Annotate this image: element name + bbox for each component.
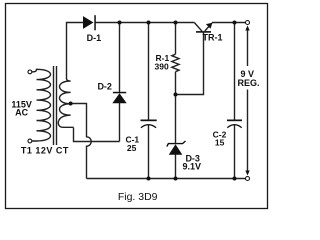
output terminal bottom: [246, 177, 250, 181]
wire top rail right (TR-1 emitter to output terminal): [212, 22, 246, 24]
transformer core: [54, 66, 57, 145]
resistor R-1 zigzag: [172, 54, 179, 71]
junction node emitter/C-2: [233, 21, 237, 25]
wire R-1 bottom to zener node: [175, 72, 177, 95]
junction node C-1/top rail: [147, 21, 151, 25]
wire top rail middle (D-1 cathode to TR-1 collector): [95, 22, 194, 24]
primary terminal top: [28, 70, 32, 74]
svg-text:T1 12V CT: T1 12V CT: [21, 145, 69, 155]
transistor TR-1 base bar: [196, 31, 211, 33]
junction node base/zener: [174, 93, 178, 97]
wire secondary bottom to D-2 anode: [74, 128, 120, 142]
zener D-3 top lead: [175, 95, 177, 144]
transistor TR-1 collector diagonal: [194, 23, 202, 32]
diode D-2 leads: [119, 23, 121, 142]
9V indicator line top: [247, 30, 249, 67]
capacitor C-2 plates: [227, 120, 242, 128]
junction node C-1/bottom rail: [147, 177, 151, 181]
junction node R-1/top rail: [174, 21, 178, 25]
diode D-1: [83, 15, 96, 30]
junction node center tap: [69, 102, 73, 106]
svg-text:REG.: REG.: [237, 78, 259, 88]
diode D-2: [113, 92, 126, 103]
svg-text:390: 390: [155, 61, 169, 71]
zener D-3 bottom lead: [175, 154, 177, 178]
9V indicator line bottom: [247, 90, 249, 171]
junction node D-2/top rail: [118, 21, 122, 25]
resistor R-1 top lead: [175, 23, 177, 55]
arrow down at bottom output terminal: [245, 171, 249, 176]
wire base node to TR-1 base: [176, 32, 204, 95]
svg-text:AC: AC: [15, 108, 28, 118]
wire top rail left (secondary top to D-1): [67, 23, 84, 80]
svg-text:D-2: D-2: [97, 82, 112, 92]
wire center tap to bottom rail (with hop): [71, 104, 92, 179]
transformer T1 secondary winding: [58, 79, 73, 128]
arrow up at top output terminal: [245, 26, 249, 31]
wire bottom rail: [87, 178, 246, 180]
capacitor C-1 plates: [141, 120, 157, 128]
svg-text:15: 15: [215, 138, 225, 148]
transformer T1 primary winding: [32, 69, 51, 141]
transistor TR-1 emitter arrowhead: [206, 23, 212, 29]
border frame: [6, 4, 268, 209]
svg-text:Fig. 3D9: Fig. 3D9: [118, 191, 158, 203]
svg-text:D-1: D-1: [87, 33, 102, 43]
svg-text:TR-1: TR-1: [203, 33, 223, 43]
capacitor C-2 leads: [234, 23, 236, 179]
transistor TR-1 emitter diagonal: [205, 23, 212, 31]
output terminal top: [246, 21, 250, 25]
zener D-3: [167, 141, 186, 155]
junction node D-3/bottom rail: [174, 177, 178, 181]
junction node C-2/bottom rail: [233, 177, 237, 181]
capacitor C-1 leads: [148, 23, 150, 179]
primary terminal bottom: [28, 139, 32, 143]
svg-text:25: 25: [127, 143, 137, 153]
svg-text:9.1V: 9.1V: [183, 162, 202, 172]
